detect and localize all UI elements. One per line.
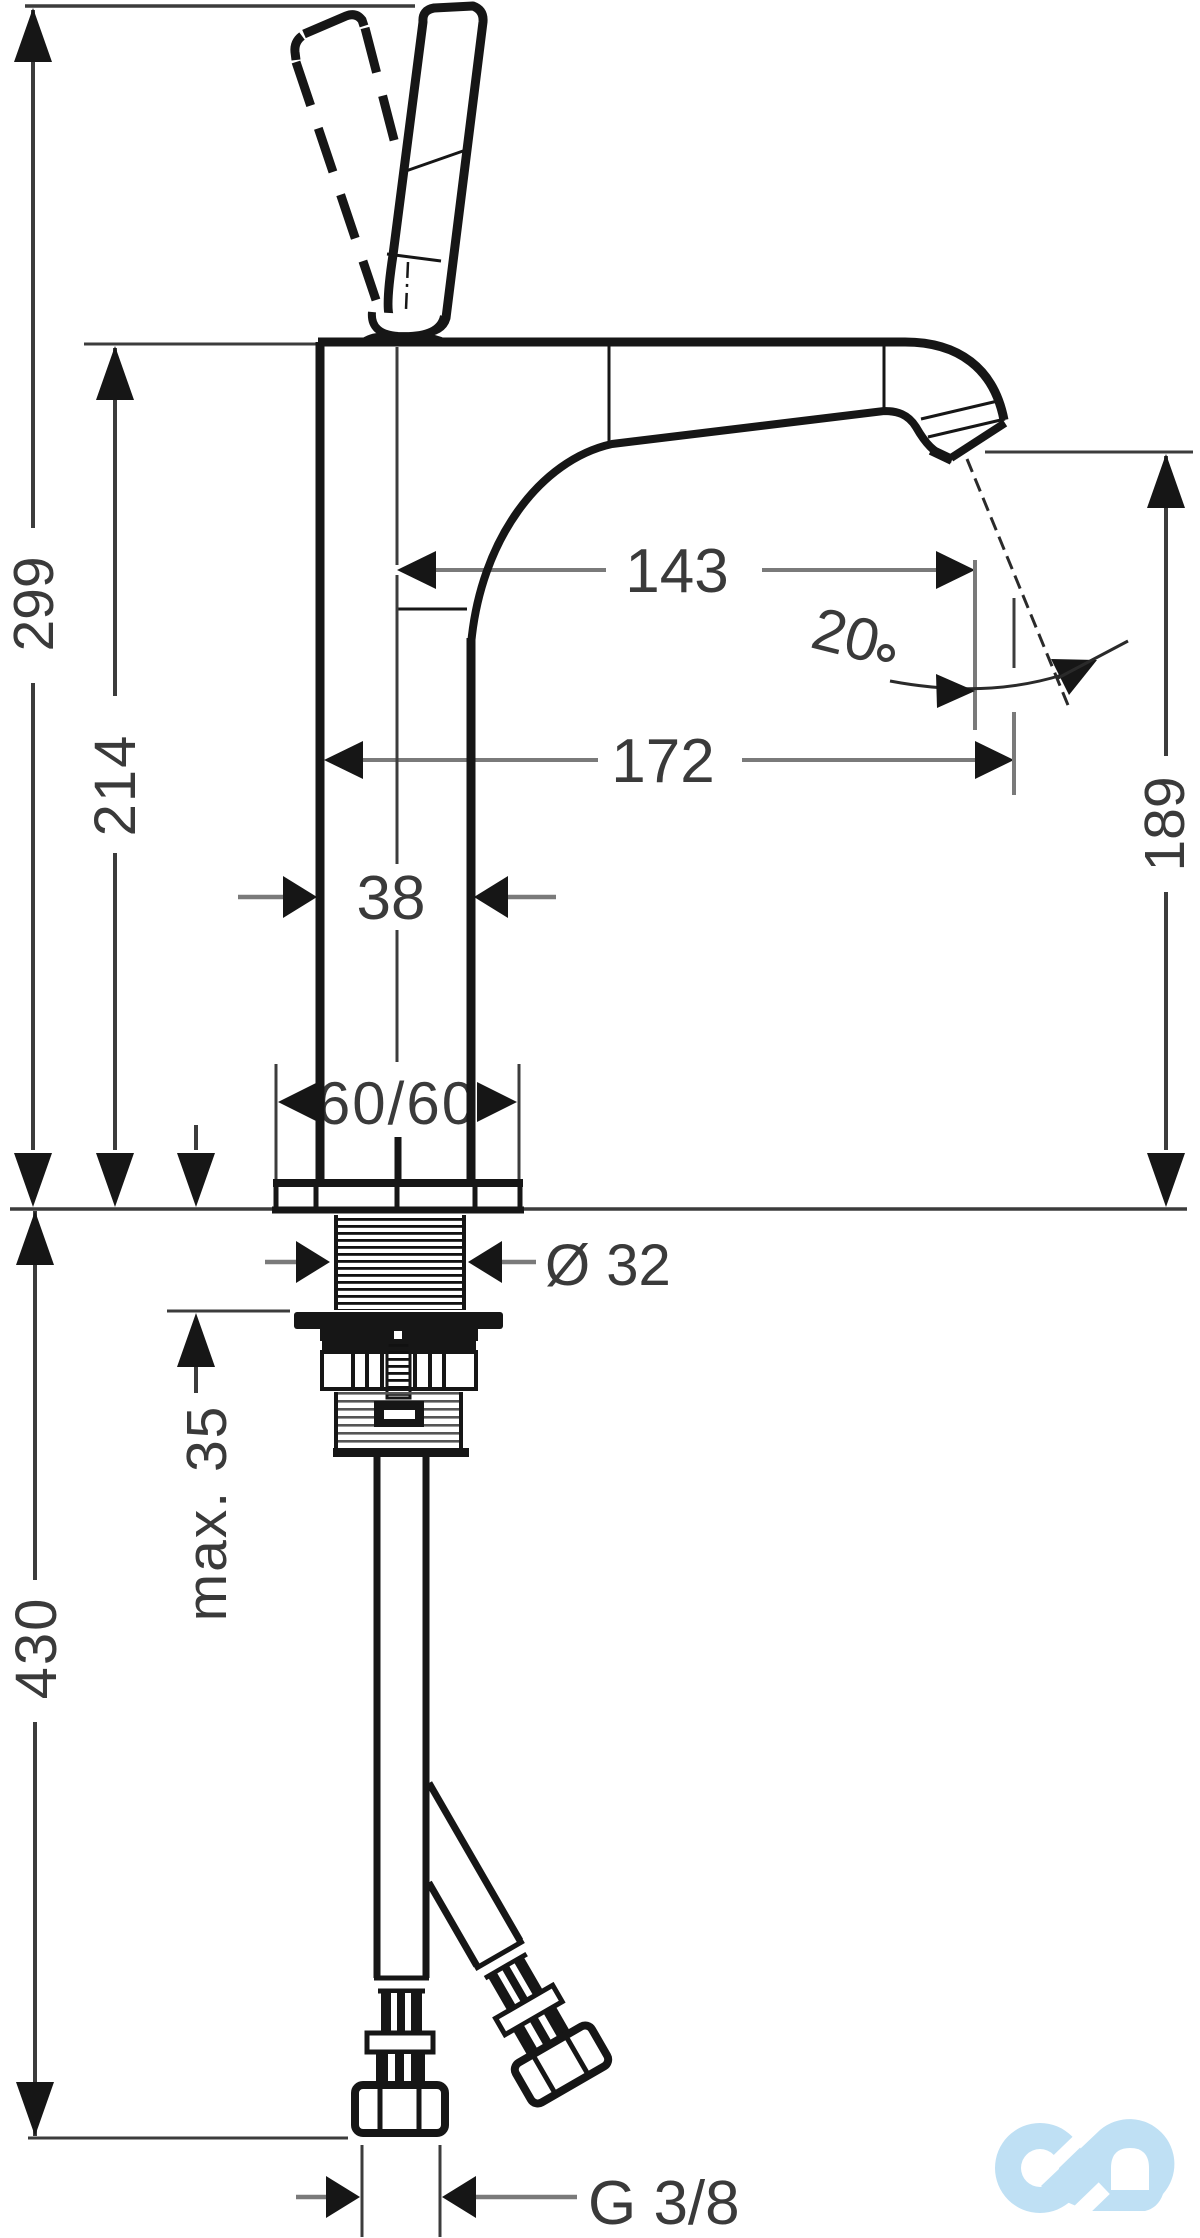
wide ring	[367, 2033, 433, 2052]
threaded shank (hatched)	[334, 1215, 466, 1310]
aerator thin lines at tip	[921, 400, 1002, 419]
handle (dashed alternate position, tilted left)	[295, 15, 400, 300]
svg-text:430: 430	[4, 1597, 69, 1700]
svg-text:214: 214	[83, 734, 148, 837]
dimension 38 (horizontal, arrows outside)	[238, 864, 556, 933]
connector rings	[374, 1976, 429, 1981]
dimension 299 (vertical left)	[2, 8, 66, 1207]
white notch in right ring bottom-left	[1074, 2182, 1110, 2217]
lower striped section	[334, 1392, 463, 1448]
D-shaped hole in right ring	[1111, 2148, 1149, 2190]
faucet body: top face + spout outer profile	[318, 342, 1005, 1182]
central collar with slot	[374, 1401, 424, 1427]
dimension 430 (vertical left, below counter)	[4, 1211, 348, 2138]
bottom edge	[333, 1448, 469, 1457]
locknut assembly	[320, 1329, 478, 1457]
spout mouth (outlet face)	[951, 423, 1005, 458]
left ring	[995, 2123, 1085, 2213]
svg-text:143: 143	[625, 537, 728, 606]
handle pivot cup	[360, 312, 448, 341]
svg-text:172: 172	[611, 727, 714, 796]
handle (solid, tilted right)	[387, 6, 483, 333]
svg-text:38: 38	[357, 864, 426, 933]
dimension 172 (horizontal) + extension line x1014	[324, 598, 1014, 796]
body left edge	[316, 342, 325, 1182]
narrow knurl	[376, 2054, 425, 2082]
flange washer (dark bar)	[294, 1312, 503, 1329]
spout bottom lip	[931, 450, 952, 460]
svg-text:60/60: 60/60	[317, 1070, 477, 1137]
spout division lines	[608, 346, 611, 443]
knurled section	[381, 1993, 422, 2033]
watermark logo (light blue 'co')	[995, 2119, 1174, 2217]
joint line at riser top	[397, 608, 467, 611]
base plate (escutcheon)	[272, 1183, 524, 1210]
riser right edge	[467, 638, 476, 1182]
svg-text:max. 35: max. 35	[175, 1405, 239, 1622]
white slit separating bar from left ring	[1034, 2131, 1088, 2183]
spout underside	[471, 411, 952, 700]
central threaded rod	[387, 1341, 410, 1398]
dimension diameter 32	[265, 1233, 671, 1298]
dimension 143 (horizontal) + extension line x975	[397, 537, 975, 730]
dimension 60/60 + extension lines	[276, 1064, 519, 1183]
svg-text:189: 189	[1133, 776, 1197, 871]
hex nut	[355, 2085, 445, 2133]
dimension 189 (vertical right) + extension line	[985, 452, 1197, 1207]
dimension max. 35 (vertical) + extension line	[167, 1125, 290, 1621]
centerline	[396, 347, 399, 565]
angle 20 deg construction	[805, 459, 1128, 710]
hose 1 (vertical supply hose)	[355, 1457, 445, 2133]
extension line top (handle top level)	[25, 4, 415, 8]
dimension G 3/8 + extension lines	[296, 2145, 740, 2238]
svg-text:Ø 32: Ø 32	[545, 1233, 671, 1298]
svg-text:299: 299	[2, 556, 66, 651]
svg-text:G 3/8: G 3/8	[588, 2169, 740, 2238]
countertop line	[10, 1207, 1187, 1211]
dimension 214 (vertical) + its extension line	[83, 344, 318, 1207]
right ring body with connecting diagonal bar	[1041, 2119, 1174, 2211]
hose 2 (diagonal supply hose)	[368, 1774, 611, 2106]
